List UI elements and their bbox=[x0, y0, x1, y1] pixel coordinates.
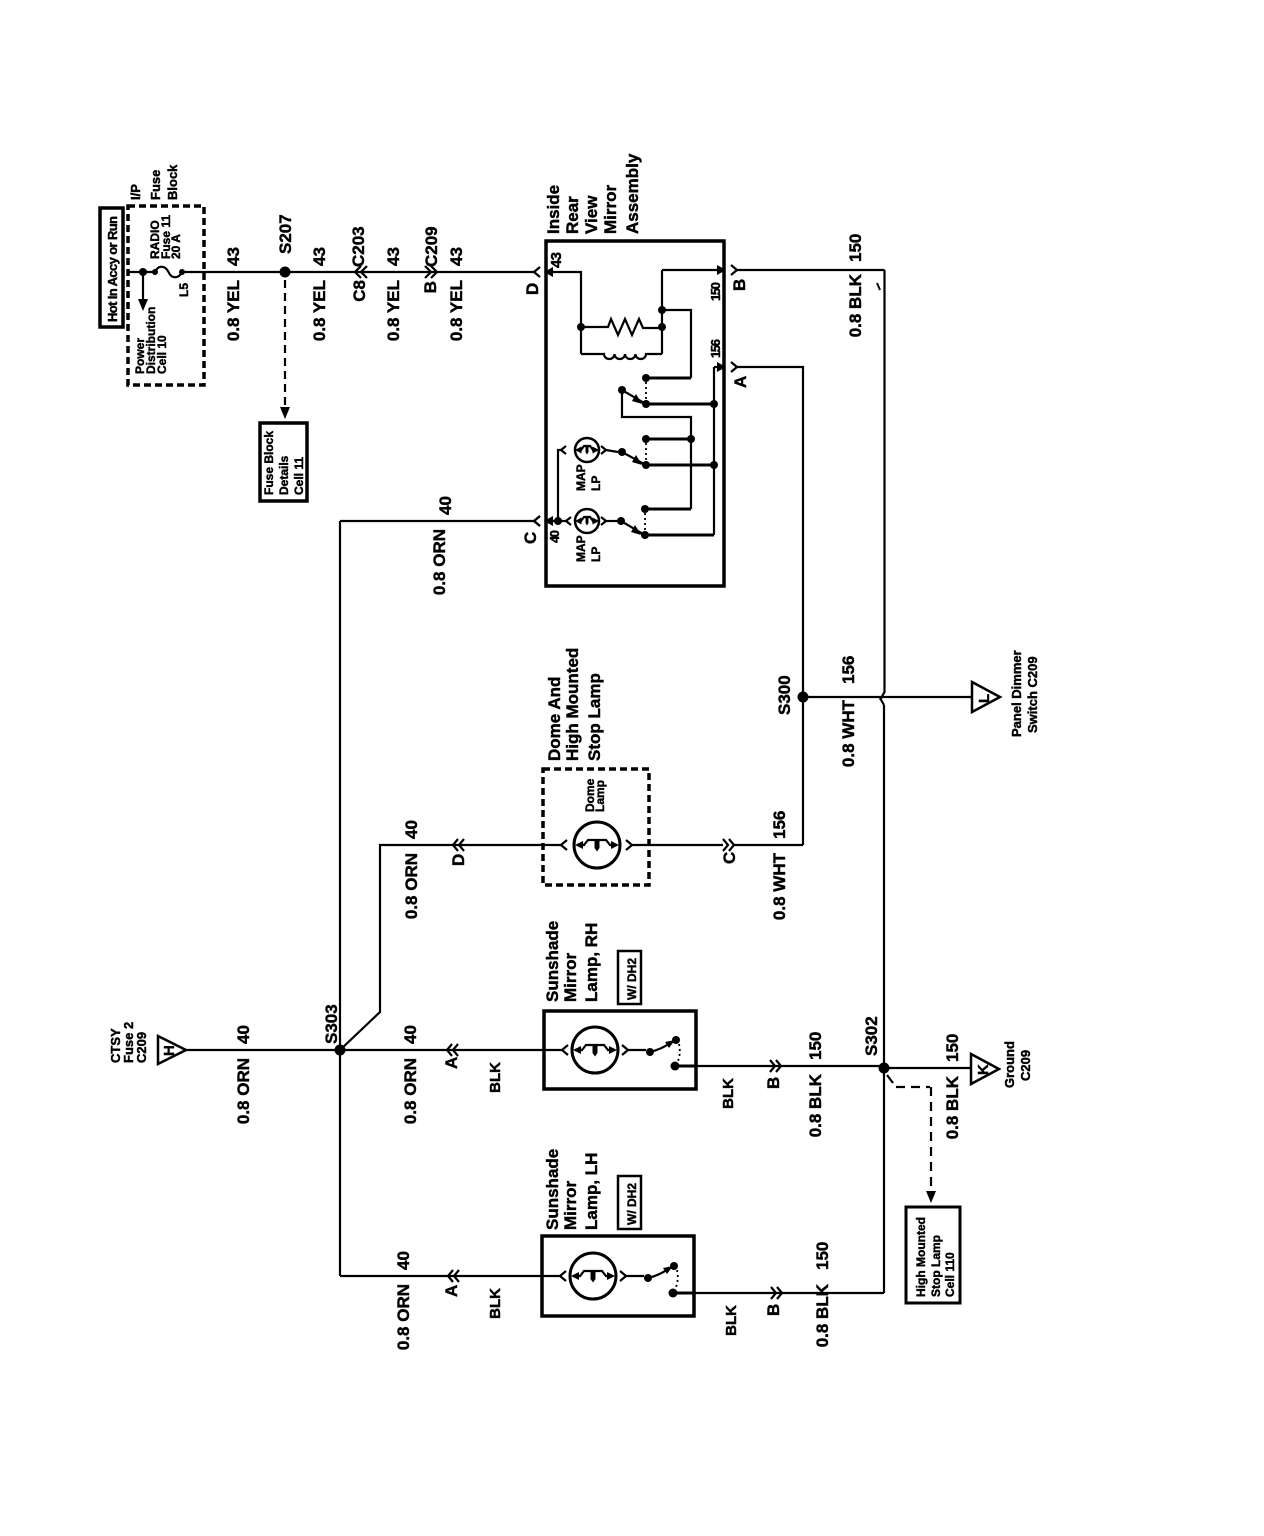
svg-text:Block: Block bbox=[165, 164, 180, 200]
svg-text:Stop Lamp: Stop Lamp bbox=[585, 673, 604, 761]
svg-text:D: D bbox=[449, 854, 468, 866]
svg-text:C: C bbox=[720, 852, 739, 864]
svg-text:0.8 YEL: 0.8 YEL bbox=[447, 280, 466, 341]
svg-text:B: B bbox=[421, 281, 440, 293]
svg-text:View: View bbox=[582, 195, 601, 234]
svg-text:L5: L5 bbox=[177, 283, 191, 297]
svg-text:150: 150 bbox=[813, 1242, 832, 1270]
svg-text:I/P: I/P bbox=[128, 184, 143, 200]
svg-text:C8: C8 bbox=[350, 280, 369, 302]
svg-text:40: 40 bbox=[436, 496, 455, 515]
svg-text:Hot In Accy or Run: Hot In Accy or Run bbox=[105, 216, 120, 322]
svg-text:S207: S207 bbox=[276, 214, 295, 254]
svg-text:0.8 ORN: 0.8 ORN bbox=[401, 1058, 420, 1124]
svg-text:43: 43 bbox=[224, 247, 243, 266]
svg-text:43: 43 bbox=[310, 247, 329, 266]
svg-text:40: 40 bbox=[401, 1025, 420, 1044]
svg-text:40: 40 bbox=[394, 1251, 413, 1270]
svg-text:40: 40 bbox=[234, 1025, 253, 1044]
svg-text:20 A: 20 A bbox=[169, 234, 183, 259]
svg-text:L: L bbox=[976, 694, 993, 703]
svg-text:K: K bbox=[975, 1064, 992, 1075]
svg-text:156: 156 bbox=[708, 339, 723, 358]
svg-text:156: 156 bbox=[770, 811, 789, 839]
svg-text:Sunshade: Sunshade bbox=[543, 921, 562, 1002]
svg-text:LP: LP bbox=[589, 547, 603, 562]
svg-text:Inside: Inside bbox=[544, 185, 563, 234]
svg-text:B: B bbox=[764, 1304, 783, 1316]
svg-text:0.8 YEL: 0.8 YEL bbox=[310, 280, 329, 341]
svg-text:Mirror: Mirror bbox=[561, 1181, 580, 1231]
svg-text:156: 156 bbox=[839, 656, 858, 684]
svg-text:0.8 BLK: 0.8 BLK bbox=[846, 273, 865, 337]
svg-text:Lamp, LH: Lamp, LH bbox=[582, 1153, 601, 1230]
svg-text:150: 150 bbox=[806, 1032, 825, 1060]
svg-text:0.8 ORN: 0.8 ORN bbox=[394, 1284, 413, 1350]
svg-text:Mirror: Mirror bbox=[561, 953, 580, 1003]
svg-text:Panel Dimmer: Panel Dimmer bbox=[1009, 650, 1024, 737]
svg-text:Cell 10: Cell 10 bbox=[155, 335, 169, 374]
svg-text:S302: S302 bbox=[862, 1016, 881, 1056]
svg-text:C209: C209 bbox=[134, 1032, 149, 1063]
svg-text:BLK: BLK bbox=[487, 1288, 504, 1319]
svg-text:C203: C203 bbox=[349, 226, 368, 267]
svg-text:D: D bbox=[523, 283, 542, 295]
svg-text:150: 150 bbox=[943, 1034, 962, 1062]
svg-text:40: 40 bbox=[402, 820, 421, 839]
svg-text:0.8 WHT: 0.8 WHT bbox=[770, 852, 789, 920]
svg-text:A: A bbox=[731, 376, 750, 388]
svg-text:0.8 ORN: 0.8 ORN bbox=[430, 529, 449, 595]
svg-text:Sunshade: Sunshade bbox=[543, 1149, 562, 1230]
svg-text:0.8 BLK: 0.8 BLK bbox=[806, 1073, 825, 1137]
svg-text:A: A bbox=[442, 1057, 461, 1069]
svg-text:43: 43 bbox=[548, 252, 565, 268]
svg-text:0.8 BLK: 0.8 BLK bbox=[943, 1075, 962, 1139]
svg-text:High Mounted: High Mounted bbox=[914, 1217, 928, 1297]
svg-text:A: A bbox=[442, 1285, 461, 1297]
svg-text:0.8 ORN: 0.8 ORN bbox=[234, 1058, 253, 1124]
svg-text:Fuse: Fuse bbox=[148, 170, 163, 200]
svg-text:Assembly: Assembly bbox=[623, 153, 642, 234]
svg-text:Ground: Ground bbox=[1002, 1041, 1017, 1088]
svg-text:43: 43 bbox=[447, 247, 466, 266]
svg-text:BLK: BLK bbox=[720, 1078, 737, 1109]
svg-text:150: 150 bbox=[708, 282, 723, 301]
svg-text:S300: S300 bbox=[775, 675, 794, 715]
svg-text:Switch C209: Switch C209 bbox=[1025, 656, 1040, 733]
svg-text:S303: S303 bbox=[322, 1004, 341, 1044]
svg-text:150: 150 bbox=[846, 234, 865, 262]
svg-text:Mirror: Mirror bbox=[601, 185, 620, 235]
svg-text:C209: C209 bbox=[422, 226, 441, 267]
svg-text:0.8 YEL: 0.8 YEL bbox=[224, 280, 243, 341]
svg-text:Fuse Block: Fuse Block bbox=[262, 431, 276, 495]
svg-text:W/ DH2: W/ DH2 bbox=[625, 1183, 639, 1225]
svg-text:Details: Details bbox=[277, 455, 291, 495]
svg-text:H: H bbox=[161, 1045, 178, 1056]
svg-text:0.8 BLK: 0.8 BLK bbox=[813, 1283, 832, 1347]
svg-text:B: B bbox=[764, 1077, 783, 1089]
svg-text:Lamp: Lamp bbox=[593, 780, 607, 812]
svg-text:B: B bbox=[730, 279, 749, 291]
svg-text:C: C bbox=[521, 532, 540, 544]
svg-text:43: 43 bbox=[384, 247, 403, 266]
svg-text:High Mounted: High Mounted bbox=[563, 648, 582, 761]
svg-text:0.8 WHT: 0.8 WHT bbox=[839, 699, 858, 767]
svg-text:LP: LP bbox=[589, 476, 603, 491]
svg-text:Rear: Rear bbox=[563, 196, 582, 234]
svg-text:Cell 11: Cell 11 bbox=[292, 457, 306, 495]
svg-text:W/ DH2: W/ DH2 bbox=[625, 958, 639, 1000]
svg-text:Stop Lamp: Stop Lamp bbox=[929, 1235, 943, 1297]
svg-text:BLK: BLK bbox=[487, 1062, 504, 1093]
svg-text:40: 40 bbox=[547, 530, 562, 543]
svg-text:MAP: MAP bbox=[574, 535, 588, 562]
svg-text:MAP: MAP bbox=[574, 464, 588, 491]
svg-text:0.8 YEL: 0.8 YEL bbox=[384, 280, 403, 341]
svg-text:C209: C209 bbox=[1018, 1050, 1033, 1081]
svg-text:Cell 110: Cell 110 bbox=[943, 1252, 957, 1297]
svg-text:Dome And: Dome And bbox=[545, 677, 564, 761]
svg-text:Lamp, RH: Lamp, RH bbox=[582, 923, 601, 1002]
svg-text:0.8 ORN: 0.8 ORN bbox=[402, 853, 421, 919]
svg-text:BLK: BLK bbox=[723, 1305, 740, 1336]
